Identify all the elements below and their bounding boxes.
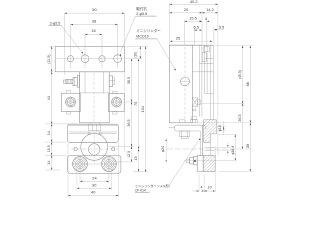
pivot pin hole left: [74, 147, 77, 150]
extension line screw center: [201, 103, 245, 105]
svg-text:75: 75: [133, 102, 138, 106]
svg-text:15: 15: [91, 28, 95, 33]
dim 10 bottom side view: [202, 190, 204, 191]
port fitting side profile steps: [186, 159, 189, 163]
dim 3.5 top: [213, 28, 215, 45]
port axis centerline side: [184, 160, 235, 162]
svg-text:(21.5): (21.5): [47, 55, 51, 64]
svg-text:15.5: 15.5: [189, 16, 197, 21]
left port fitting circles: [73, 157, 88, 172]
pivot pin hole right: [112, 147, 115, 150]
claw slide plate: [68, 124, 119, 142]
claw small circles: [88, 132, 90, 134]
mounting hole 2 (2-dia5.5): [81, 55, 89, 63]
svg-text:40.2: 40.2: [190, 0, 198, 4]
dim 50 top: [64, 13, 66, 75]
wedge detail inside claw plate: [88, 124, 100, 131]
dim 4 bottom side view: [198, 174, 200, 193]
dim 14.2 top: [201, 11, 203, 45]
dim 15: [85, 33, 102, 35]
hole centerline horizontal: [57, 58, 124, 60]
dim 36.5 lower right: [131, 102, 133, 147]
svg-text:6.5: 6.5: [193, 24, 198, 29]
svg-text:25: 25: [176, 35, 180, 40]
svg-text:10.5: 10.5: [47, 145, 51, 152]
dim 24 bottom: [79, 173, 81, 183]
hatched bottom plate cross-section: [203, 155, 215, 171]
cylinder tube inner verticals: [84, 72, 86, 93]
right screw bracket: [109, 94, 125, 112]
svg-text:ミニシリンダーツメ(L形): ミニシリンダーツメ(L形): [135, 183, 170, 188]
svg-text:12.5: 12.5: [127, 151, 131, 158]
claw L-bracket corner: [204, 125, 206, 129]
svg-text:φ24: φ24: [161, 146, 165, 152]
rotary hub circle: [81, 134, 108, 161]
cylinder body block: [80, 72, 110, 123]
extension bottom plate bottom right: [219, 171, 253, 173]
dim 20 top: [170, 12, 203, 14]
dim 19 right: [138, 149, 140, 172]
dim 104 right: [126, 45, 148, 47]
svg-text:ミニシリンダー: ミニシリンダー: [136, 28, 161, 33]
dim 14 left upper: [51, 124, 53, 142]
svg-text:10: 10: [208, 186, 212, 190]
extension body bottom right: [193, 122, 253, 124]
bottom plate: [68, 155, 121, 173]
left nipple threads: [65, 79, 67, 83]
right port fitting circles: [102, 157, 117, 172]
svg-text:104: 104: [140, 105, 145, 112]
svg-text:36.5: 36.5: [238, 114, 242, 121]
plate bottom edge side view: [192, 71, 213, 73]
pivot axis centerline front: [71, 148, 118, 150]
dim 12.5 right: [131, 147, 133, 162]
mounting hole 4 (2-dia5.5): [114, 55, 122, 63]
side bottom cap detail: [192, 117, 197, 120]
svg-text:36.5: 36.5: [127, 77, 131, 84]
svg-text:2-φ5.5: 2-φ5.5: [50, 22, 61, 26]
under-body tab side: [179, 120, 185, 123]
mounting hole 1: [68, 56, 74, 62]
svg-text:(10): (10): [133, 52, 137, 58]
dim (45.5) right: [242, 46, 244, 104]
svg-text:3.5: 3.5: [219, 24, 225, 29]
mounting hole 3: [99, 56, 105, 62]
right screw circles: [112, 97, 122, 107]
dim 40 bottom: [67, 143, 69, 197]
small block on laminations: [202, 53, 206, 62]
svg-text:14.2: 14.2: [206, 7, 214, 12]
dim 40.2 top: [169, 3, 171, 45]
dim 38: [71, 24, 118, 26]
dim 44 left: [45, 123, 77, 125]
lamination connectors: [205, 57, 214, 59]
side view top edge full depth: [169, 44, 213, 46]
dim 4 top: [206, 20, 208, 45]
pivot boss side view: [205, 146, 216, 148]
pivot axis long centerline: [167, 148, 254, 150]
dim phi24 left of side view: [166, 139, 167, 141]
dim 36.5 upper right: [126, 58, 142, 60]
dim 15.5 top: [184, 20, 186, 45]
hole centerlines vertical: [70, 24, 72, 69]
left nipple tip: [64, 80, 67, 83]
svg-text:取付孔: 取付孔: [136, 6, 147, 11]
side view plate laminations verticals: [198, 45, 200, 117]
dim phi38.4: [219, 133, 237, 135]
dim 39 far right: [249, 123, 251, 172]
dim 75 right: [138, 59, 140, 149]
stem under body side: [180, 131, 190, 137]
dim 66 far right: [249, 46, 251, 123]
body vertical centerline: [93, 73, 95, 122]
svg-text:φ10: φ10: [218, 125, 222, 131]
claw arm left stub line: [169, 126, 175, 128]
pivot boss small dim: [217, 146, 230, 148]
dim 36.5 right side: [242, 104, 244, 150]
left nipple flange: [77, 75, 79, 87]
svg-text:φ38.4: φ38.4: [231, 146, 235, 155]
dim (21.5) left of plate: [49, 45, 54, 47]
svg-text:CF-014: CF-014: [135, 189, 146, 193]
side screw fitting: [192, 98, 197, 107]
side view circle port: [181, 77, 190, 86]
hub bore circle: [89, 144, 100, 155]
svg-text:19: 19: [134, 156, 138, 160]
plate right edge extension line: [124, 72, 126, 152]
front view: top mounting plate: [55, 46, 124, 71]
left nipple nut: [73, 77, 77, 85]
svg-text:(45.5): (45.5): [238, 70, 242, 79]
svg-text:39: 39: [245, 144, 250, 148]
svg-text:66: 66: [245, 82, 250, 86]
svg-text:2-φ5.5: 2-φ5.5: [136, 12, 147, 16]
svg-text:36.5: 36.5: [127, 119, 131, 126]
svg-text:4: 4: [200, 185, 202, 189]
dim 14 left lower: [51, 155, 53, 170]
dim 30 bottom: [76, 167, 78, 191]
extension top right: [215, 45, 253, 47]
dim phi10: [218, 125, 226, 127]
hatched claw cross-section upper: [204, 120, 217, 143]
hub vertical centerline: [93, 135, 95, 163]
port bolt dark dot: [194, 160, 196, 162]
dim 10.5 left: [51, 142, 53, 155]
left screw circles: [66, 97, 76, 107]
wedge stem under body: [90, 123, 99, 124]
claw arm side view: [177, 124, 204, 126]
claw slot lines: [69, 131, 117, 133]
dim 6.5 top: [193, 28, 195, 45]
svg-text:MCD10: MCD10: [136, 35, 149, 39]
svg-text:38: 38: [92, 18, 96, 23]
side view vertical centerline: [184, 47, 186, 122]
left screw bracket: [61, 93, 80, 111]
claw L-bracket verticals: [199, 131, 201, 156]
side view cylinder body: [169, 45, 192, 123]
top-right small fitting: [109, 76, 113, 87]
port centerlines: [79, 156, 81, 173]
dim 25 top of side view: [170, 40, 213, 42]
